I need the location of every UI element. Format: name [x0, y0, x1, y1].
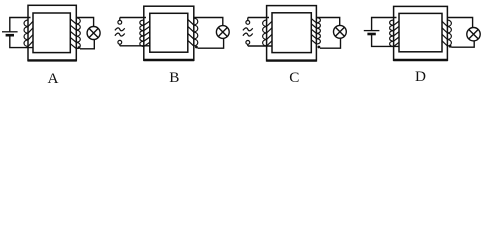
coil B secondary (right, 4 turns): [194, 18, 198, 46]
svg-text:B: B: [169, 69, 179, 86]
transformer D core inner: [399, 13, 442, 51]
coil A secondary (right, 5 turns): [76, 18, 80, 49]
coil C primary (left, 4 turns): [263, 20, 267, 46]
svg-text:D: D: [415, 68, 426, 85]
wire C lamp bottom: [320, 38, 341, 48]
wire A bottom: battery to primary: [10, 35, 34, 47]
junction C secondary bottom: [318, 46, 321, 49]
junction A secondary bottom: [78, 46, 81, 49]
coil B primary (left, 5 turns): [140, 20, 144, 47]
coil D primary (left, 5 turns): [390, 20, 394, 47]
lamp B: [216, 26, 229, 39]
wire A lamp top: [76, 18, 93, 27]
battery (circuit A source): [2, 31, 18, 33]
junction B secondary bottom: [195, 46, 198, 49]
wire D lamp top: [447, 18, 472, 28]
wire C bottom: source to primary: [248, 45, 272, 47]
transformer A core inner: [33, 13, 70, 53]
wire B bottom: source to primary: [120, 45, 150, 47]
coil D secondary (right, 4 turns): [447, 20, 451, 46]
wire C lamp top: [316, 18, 339, 26]
AC source (circuit C): [247, 18, 249, 21]
transformer C core outer: [267, 6, 317, 61]
coil A primary (left, 4 turns): [24, 20, 28, 47]
wire A lamp bottom: [80, 39, 94, 48]
coil C secondary (right, 5 turns): [316, 18, 320, 45]
wire B lamp bottom: [198, 38, 224, 48]
wire A top: battery to primary: [10, 18, 31, 32]
transformer D core outer: [394, 6, 448, 60]
lamp A: [87, 27, 100, 40]
junction D secondary bottom: [449, 45, 452, 48]
wire B lamp top: [194, 18, 223, 26]
transformer A core outer: [28, 5, 76, 60]
lamp D: [467, 28, 480, 41]
wire C top: source to primary: [248, 17, 269, 19]
transformer B core inner: [150, 13, 188, 52]
battery (circuit D source): [364, 30, 380, 32]
wire D bottom: battery to primary: [372, 34, 399, 46]
transformer B core outer: [144, 6, 194, 60]
lamp C: [334, 25, 347, 38]
wire B top: source to primary: [120, 17, 146, 19]
AC source (circuit B): [119, 18, 121, 21]
wire D lamp bottom: [451, 41, 474, 47]
svg-text:C: C: [289, 69, 299, 86]
transformer C core inner: [272, 13, 311, 53]
wire D top: battery to primary: [372, 18, 397, 31]
svg-text:A: A: [48, 70, 59, 87]
